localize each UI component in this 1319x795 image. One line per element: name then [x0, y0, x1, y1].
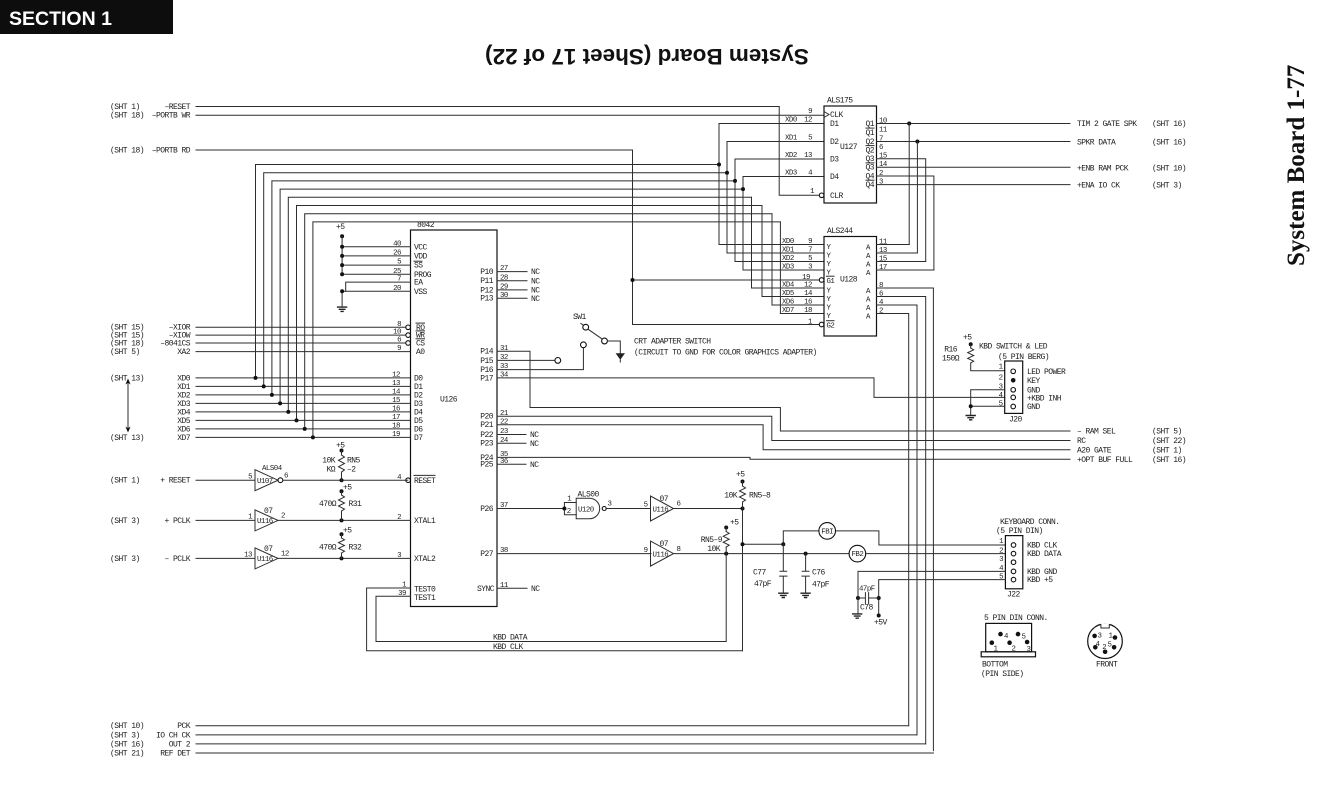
svg-text:9: 9: [808, 108, 812, 116]
svg-text:XTAL2: XTAL2: [414, 555, 436, 564]
svg-text:U116: U116: [653, 506, 669, 514]
svg-text:– RAM SEL: – RAM SEL: [1077, 428, 1116, 437]
wire P26 to U120: [497, 503, 576, 515]
svg-text:XD0: XD0: [785, 117, 797, 125]
svg-text:+ENA IO CK: +ENA IO CK: [1077, 182, 1120, 191]
op-amp U126 8042 keyboard controller body: [411, 221, 498, 607]
node +OPT BUF FULL label: [1077, 456, 1186, 465]
svg-text:(SHT 3): (SHT 3): [110, 555, 140, 564]
svg-text:C77: C77: [753, 569, 767, 578]
buffer U116 P27 path: [644, 540, 681, 566]
svg-text:14: 14: [879, 161, 888, 169]
svg-text:17: 17: [392, 414, 400, 422]
ground at C78: [852, 614, 862, 618]
J22 pin numbers: [999, 538, 1004, 581]
svg-text:P23: P23: [480, 440, 494, 449]
svg-text:KBD CLK: KBD CLK: [1027, 542, 1058, 551]
svg-text:U116: U116: [653, 551, 669, 559]
ground at C76: [800, 593, 810, 597]
svg-text:RN5–9: RN5–9: [701, 536, 723, 545]
U126 XTAL2 pin 3: [397, 552, 436, 564]
node P16 switch contact: [581, 342, 587, 348]
svg-text:3: 3: [1027, 646, 1031, 654]
svg-text:NC: NC: [530, 461, 539, 470]
svg-text:15: 15: [879, 255, 887, 263]
svg-text:5: 5: [397, 259, 401, 267]
svg-text:5: 5: [1108, 642, 1112, 650]
svg-text:(SHT 5): (SHT 5): [1152, 428, 1182, 437]
svg-text:U107: U107: [257, 478, 273, 486]
wire VSS to ground: [340, 289, 410, 307]
wire net XD2 bus run: [270, 159, 824, 397]
ground at J20: [966, 416, 976, 420]
svg-text:17: 17: [879, 264, 887, 272]
svg-text:FRONT: FRONT: [1096, 661, 1118, 670]
svg-text:System Board 1-77: System Board 1-77: [1283, 65, 1310, 266]
U126 P27 pin 38: [480, 547, 508, 559]
node REF DET from (SHT 21) / wire: [110, 749, 933, 758]
svg-text:3: 3: [879, 178, 883, 186]
svg-text:U126: U126: [440, 396, 458, 405]
svg-text:16: 16: [392, 406, 400, 414]
resistor R31 470: [319, 484, 362, 521]
side title System Board 1-77: [1283, 65, 1310, 266]
capacitor C77 47pF: [753, 544, 787, 593]
node XD3 from SHT 13 / wire: [177, 400, 410, 409]
svg-text:8: 8: [879, 282, 883, 290]
svg-text:GND: GND: [1027, 403, 1041, 412]
U127 CLR bubble pin 1: [810, 188, 824, 198]
U126 supply pin numbers 40 26 5 25 7 20: [393, 240, 401, 293]
svg-text:EA: EA: [414, 279, 423, 288]
wire KBD GND to J22 pin4: [856, 571, 1005, 600]
node A20 GATE label: [1077, 446, 1182, 455]
svg-text:2: 2: [999, 547, 1003, 555]
wire P16 to switch contact: [497, 348, 583, 370]
svg-text:+OPT BUF FULL: +OPT BUF FULL: [1077, 456, 1133, 465]
svg-text:10: 10: [393, 329, 401, 337]
node + PCLK from (SHT 3) / wire: [110, 517, 255, 526]
ground at C77: [778, 593, 788, 597]
svg-text:11: 11: [879, 126, 888, 134]
buffer U116 -PCLK: [244, 545, 289, 569]
svg-text:D7: D7: [414, 434, 423, 443]
ground at U126 VSS: [337, 307, 347, 311]
svg-text:U120: U120: [578, 507, 594, 515]
svg-text:NC: NC: [531, 585, 540, 594]
svg-text:Q4: Q4: [865, 181, 874, 190]
svg-text:NC: NC: [531, 268, 540, 277]
svg-text:RN5–8: RN5–8: [749, 491, 771, 500]
U126 port pins P20-P25: [480, 410, 539, 470]
svg-text:SYNC: SYNC: [477, 585, 495, 594]
svg-text:–RESET: –RESET: [164, 103, 190, 112]
svg-text:D4: D4: [830, 173, 839, 182]
node PCK from (SHT 10) / wire: [110, 722, 909, 731]
svg-text:470Ω: 470Ω: [319, 543, 337, 552]
svg-text:KBD CLK: KBD CLK: [493, 643, 524, 652]
resistor RN5-8 10K: [724, 471, 771, 509]
svg-text:REF DET: REF DET: [160, 749, 191, 758]
svg-text:ALS04: ALS04: [262, 465, 283, 473]
page title (rotated 180): [485, 44, 809, 69]
wire U128 pin13 to Q2 net: [877, 252, 918, 254]
wire SW1 to ground: [608, 341, 621, 353]
svg-text:+5: +5: [336, 223, 345, 232]
node –XIOW from (SHT 15) / wire: [110, 332, 406, 341]
wire net XD6 bus run: [303, 214, 824, 431]
svg-text:XTAL1: XTAL1: [414, 517, 436, 526]
svg-text:D2: D2: [830, 138, 839, 147]
svg-text:A0: A0: [416, 348, 425, 357]
ferrite bead FB1: [819, 523, 836, 540]
svg-text:XD3: XD3: [785, 170, 797, 178]
resistor R32 470: [319, 527, 362, 559]
svg-text:(SHT 3): (SHT 3): [110, 517, 140, 526]
svg-text:D1: D1: [830, 120, 839, 129]
svg-text:2: 2: [281, 513, 285, 521]
svg-text:+5: +5: [736, 471, 745, 480]
buffer U116 P26 path: [644, 495, 681, 521]
switch SW1: [573, 313, 607, 344]
svg-text:P15: P15: [480, 357, 494, 366]
wire P21 to A20 GATE: [497, 425, 1070, 450]
wire C78 to ground: [857, 598, 859, 614]
wire net XD5 bus run: [295, 206, 825, 423]
svg-text:6: 6: [284, 472, 288, 480]
svg-text:XD3: XD3: [782, 264, 794, 272]
svg-text:XD6: XD6: [782, 299, 794, 307]
svg-text:25: 25: [393, 268, 401, 276]
wire net XD4 bus run: [286, 197, 824, 414]
node XD2 from SHT 13 / wire: [177, 391, 410, 400]
wire Q1 TIM 2 GATE SPK: [877, 122, 1071, 245]
svg-text:(SHT 1): (SHT 1): [110, 477, 140, 486]
svg-text:–PORTB WR: –PORTB WR: [152, 112, 191, 121]
U126 SYNC pin 11 NC: [477, 582, 540, 594]
svg-text:NC: NC: [530, 440, 539, 449]
svg-text:R31: R31: [349, 500, 363, 509]
wire +RESET to U126: [283, 478, 408, 482]
label KBD SWITCH & LED: [979, 343, 1049, 362]
svg-text:(SHT 16): (SHT 16): [110, 740, 144, 749]
svg-text:–2: –2: [347, 466, 356, 475]
J20 pin numbers: [999, 363, 1004, 408]
wire -PCLK to U126: [278, 556, 411, 560]
inverter U107 ALS04: [248, 465, 288, 491]
svg-text:5: 5: [999, 401, 1003, 409]
wire U128 pin8 to REF DET: [877, 288, 934, 751]
node XD5 from SHT 13 / wire: [177, 417, 410, 426]
svg-text:39: 39: [398, 590, 406, 598]
svg-text:PCK: PCK: [177, 722, 191, 731]
node XD0 from (SHT 13) / wire: [110, 374, 411, 383]
wire P20 to RC: [497, 416, 1070, 440]
svg-text:26: 26: [393, 250, 401, 258]
XD bus range arrow: [125, 379, 130, 433]
svg-text:13: 13: [804, 152, 812, 160]
label FRONT: [1096, 661, 1118, 670]
wire P24 to +OPT BUF FULL: [497, 457, 1070, 459]
svg-text:(SHT 3): (SHT 3): [1152, 182, 1182, 191]
wire buffered KBD DATA: [674, 552, 1005, 556]
svg-text:6: 6: [879, 290, 883, 298]
U127 input pin numbers and XD labels: [785, 108, 813, 178]
svg-text:ALS175: ALS175: [827, 97, 853, 106]
svg-text:(SHT 10): (SHT 10): [110, 722, 144, 731]
svg-text:J22: J22: [1007, 591, 1021, 600]
svg-text:SS: SS: [414, 262, 423, 271]
U126 port pins P10-P13 NC: [480, 265, 540, 304]
svg-text:7: 7: [808, 247, 812, 255]
node –PORTB RD from (SHT 18) / wire: [110, 146, 633, 155]
svg-text:Q3: Q3: [865, 164, 874, 173]
svg-text:6: 6: [397, 337, 401, 345]
svg-text:47pF: 47pF: [859, 586, 875, 594]
svg-text:U116: U116: [257, 556, 273, 564]
svg-text:G1: G1: [827, 278, 836, 286]
wire buffered KBD CLK: [674, 507, 745, 511]
U126 port pins P14-P17 labels: [480, 345, 509, 384]
svg-text:KΩ: KΩ: [326, 466, 335, 475]
svg-text:RN5: RN5: [347, 456, 361, 465]
wire U128 pin15 to Q3 net: [877, 261, 926, 263]
svg-text:+ PCLK: + PCLK: [164, 517, 190, 526]
resistor RN5-9 10K: [701, 519, 740, 554]
svg-text:13: 13: [244, 552, 252, 560]
svg-text:– PCLK: – PCLK: [164, 555, 190, 564]
svg-text:8: 8: [677, 546, 681, 554]
nand U120 ALS00: [567, 490, 612, 518]
svg-text:Q1: Q1: [865, 120, 874, 129]
svg-text:VDD: VDD: [414, 252, 428, 261]
U126 XTAL1 pin 2: [397, 514, 436, 526]
node XA2 from (SHT 5) / wire: [110, 348, 411, 357]
node XD4 from SHT 13 / wire: [177, 408, 410, 417]
wire U128 pin2 to PCK: [877, 314, 909, 726]
svg-text:8: 8: [397, 321, 401, 329]
svg-text:(SHT 16): (SHT 16): [1152, 456, 1186, 465]
capacitor C78 47pF: [858, 586, 879, 613]
wire U128 pin17 to Q4 net: [877, 269, 934, 271]
svg-text:9: 9: [808, 238, 812, 246]
svg-text:(SHT 21): (SHT 21): [110, 749, 144, 758]
node XD7 from (SHT 13) / wire: [110, 434, 411, 443]
op-amp U127 ALS175 body: [824, 97, 877, 204]
svg-text:(SHT 3): (SHT 3): [110, 731, 140, 740]
svg-text:SW1: SW1: [573, 313, 587, 322]
svg-text:CRT ADAPTER SWITCH: CRT ADAPTER SWITCH: [634, 338, 711, 347]
power +5V label: [874, 619, 888, 628]
svg-text:+5: +5: [343, 484, 352, 493]
svg-text:P21: P21: [480, 421, 494, 430]
wire P17 to +KBD INH: [497, 378, 1005, 398]
wire KBD CLK junction to FB1 and J22 pin1: [741, 509, 1006, 651]
svg-text:R16: R16: [944, 345, 958, 354]
svg-text:+5: +5: [730, 519, 739, 528]
svg-text:15: 15: [392, 397, 400, 405]
svg-text:(SHT 5): (SHT 5): [110, 348, 140, 357]
svg-text:A20 GATE: A20 GATE: [1077, 446, 1112, 455]
wire Q3 to U128: [877, 159, 926, 262]
node SPKR DATA: [1077, 139, 1186, 148]
svg-text:10: 10: [879, 117, 887, 125]
wire U120 out to U116: [606, 508, 650, 510]
svg-text:+ RESET: + RESET: [160, 477, 191, 486]
svg-text:(CIRCUIT TO GND FOR COLOR GRAP: (CIRCUIT TO GND FOR COLOR GRAPHICS ADAPT…: [634, 349, 817, 358]
node OUT 2 from (SHT 16) / wire: [110, 740, 926, 749]
svg-text:5: 5: [808, 255, 812, 263]
svg-text:VSS: VSS: [414, 288, 428, 297]
svg-text:(SHT 13): (SHT 13): [110, 434, 144, 443]
svg-text:P25: P25: [480, 461, 494, 470]
wire Q4bar +ENA IO CK: [877, 184, 1071, 186]
U126 control pins RO WR CS A0: [393, 321, 425, 357]
wire J20 GND pins: [969, 390, 1005, 415]
svg-text:5: 5: [248, 473, 252, 481]
svg-text:KBD +5: KBD +5: [1027, 576, 1053, 585]
svg-text:KBD DATA: KBD DATA: [493, 634, 528, 643]
capacitor C76 47pF: [802, 554, 830, 593]
node +ENA IO CK: [1077, 182, 1182, 191]
svg-text:VCC: VCC: [414, 243, 428, 252]
wire TEST1 KBD DATA: [376, 554, 726, 642]
J20 pin labels: [1027, 368, 1066, 412]
svg-text:2: 2: [1102, 644, 1106, 652]
svg-text:5: 5: [1022, 633, 1026, 641]
svg-text:470Ω: 470Ω: [319, 500, 337, 509]
svg-text:3: 3: [608, 501, 612, 509]
U128 input labels: [782, 238, 835, 330]
node –8041CS from (SHT 18) / wire: [110, 339, 406, 348]
node P15 switch contact: [555, 358, 561, 364]
wire net XD0 bus run: [254, 124, 825, 380]
U126 RESET pin 4: [397, 474, 436, 486]
svg-text:P27: P27: [480, 550, 494, 559]
wire +PCLK to U126: [278, 518, 411, 522]
svg-text:KBD DATA: KBD DATA: [1027, 550, 1062, 559]
node RC label: [1077, 437, 1186, 446]
svg-text:U128: U128: [840, 276, 858, 285]
svg-text:OUT 2: OUT 2: [169, 740, 191, 749]
svg-text:IO CH CK: IO CH CK: [156, 731, 191, 740]
svg-text:(PIN SIDE): (PIN SIDE): [981, 670, 1024, 679]
node KBD DATA label: [493, 634, 528, 643]
svg-text:14: 14: [392, 389, 401, 397]
svg-text:SPKR DATA: SPKR DATA: [1077, 139, 1116, 148]
svg-text:+5: +5: [343, 527, 352, 536]
resistor R16 150: [942, 334, 1005, 371]
svg-text:P14: P14: [480, 348, 494, 357]
wire TEST0 KBD CLK: [367, 588, 743, 651]
buffer U116 +PCLK: [248, 507, 285, 531]
svg-text:12: 12: [392, 372, 400, 380]
svg-text:10K: 10K: [322, 456, 336, 465]
svg-text:BOTTOM: BOTTOM: [982, 661, 1008, 670]
svg-text:NC: NC: [530, 431, 539, 440]
wire U128 pin6 to OUT 2: [877, 297, 926, 744]
svg-text:6: 6: [677, 501, 681, 509]
wire net XD3 bus run: [278, 177, 824, 406]
node +ENB RAM PCK: [1077, 164, 1186, 173]
svg-text:15: 15: [879, 153, 887, 161]
svg-text:FBI: FBI: [821, 528, 833, 536]
node -RAM SEL label: [1077, 428, 1182, 437]
svg-text:47pF: 47pF: [754, 580, 772, 589]
svg-text:(SHT 18): (SHT 18): [110, 112, 144, 121]
U126 P26 pin 37: [480, 502, 508, 514]
svg-text:CLR: CLR: [830, 192, 844, 201]
node XD6 from SHT 13 / wire: [177, 425, 410, 434]
power +5 to U126 supply pins / wire: [336, 223, 411, 276]
wire net XD1 bus run: [262, 142, 824, 389]
svg-text:XD7: XD7: [782, 307, 794, 315]
svg-text:NC: NC: [531, 277, 540, 286]
svg-text:NC: NC: [531, 295, 540, 304]
connector J22 body: [1005, 536, 1022, 600]
svg-text:9: 9: [397, 345, 401, 353]
svg-text:47pF: 47pF: [812, 581, 830, 590]
svg-text:RC: RC: [1077, 437, 1086, 446]
svg-text:G2: G2: [827, 322, 835, 330]
svg-text:+ENB RAM PCK: +ENB RAM PCK: [1077, 164, 1129, 173]
svg-text:7: 7: [879, 135, 883, 143]
svg-text:XD5: XD5: [782, 290, 794, 298]
svg-text:6: 6: [879, 144, 883, 152]
svg-text:8042: 8042: [417, 221, 435, 230]
svg-text:5: 5: [808, 135, 812, 143]
svg-text:(SHT 1): (SHT 1): [110, 103, 140, 112]
svg-text:5: 5: [644, 502, 648, 510]
svg-text:XD0: XD0: [782, 238, 794, 246]
svg-text:Q2: Q2: [865, 146, 874, 155]
svg-text:07: 07: [264, 545, 273, 554]
wire Q4 to U128: [877, 176, 934, 270]
node TIM 2 GATE SPK: [1077, 120, 1186, 129]
wire -PORTB RD to U128 G1 G2: [631, 150, 820, 325]
U126 TEST0 TEST1 pins: [398, 582, 436, 603]
svg-text:KBD SWITCH & LED: KBD SWITCH & LED: [979, 343, 1048, 352]
resistor RN5-2 10K: [322, 442, 360, 481]
svg-text:+5: +5: [963, 334, 972, 343]
svg-text:18: 18: [804, 307, 812, 315]
svg-text:(SHT 1): (SHT 1): [1152, 446, 1182, 455]
connector DIN bottom view: [981, 623, 1035, 656]
wire EA to ground: [346, 282, 411, 291]
svg-text:P26: P26: [480, 505, 494, 514]
svg-text:10K: 10K: [724, 491, 738, 500]
svg-text:3: 3: [1098, 632, 1102, 640]
J22 pin labels: [1027, 542, 1062, 586]
svg-text:5: 5: [999, 573, 1003, 581]
svg-text:System Board (Sheet 17 of 22): System Board (Sheet 17 of 22): [485, 44, 809, 69]
node IO CH CK from (SHT 3) / wire: [110, 731, 917, 740]
svg-text:13: 13: [392, 380, 400, 388]
node + RESET from (SHT 1) / wire: [110, 477, 255, 486]
svg-text:2: 2: [1012, 645, 1016, 653]
svg-text:2: 2: [879, 307, 883, 315]
svg-text:+KBD INH: +KBD INH: [1027, 394, 1062, 403]
svg-text:U116: U116: [257, 518, 273, 526]
svg-text:12: 12: [804, 282, 812, 290]
connector J20 body: [1005, 361, 1023, 425]
svg-text:12: 12: [281, 551, 289, 559]
svg-text:07: 07: [660, 540, 669, 549]
label CRT adapter switch note: [634, 338, 817, 358]
svg-text:2: 2: [999, 374, 1003, 382]
label KEYBOARD CONN: [996, 518, 1060, 536]
svg-text:19: 19: [802, 274, 810, 282]
